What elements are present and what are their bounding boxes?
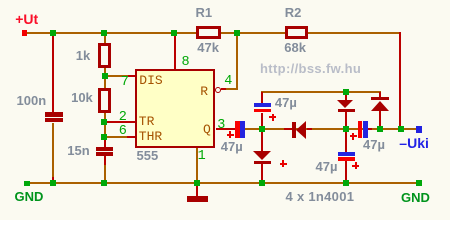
node -Uki blue pin square <box>416 126 422 132</box>
capacitor A label 47µ <box>221 140 243 153</box>
wire pin8 vertical red (rail to box top) <box>174 33 176 69</box>
junction upper wire at D1 <box>343 89 349 95</box>
diode D3 cathode bar <box>254 161 272 164</box>
capacitor B label 47µ <box>275 96 297 109</box>
node GND left green pin square <box>24 181 30 187</box>
node +Ut red pin square <box>22 30 28 36</box>
resistor 1k box <box>98 43 111 68</box>
wire red stub above bottom-left junction <box>52 177 54 183</box>
wire pin4 reset vertical (top rail down) <box>236 33 238 90</box>
wire cap B top red pin <box>261 92 263 103</box>
junction bottom rail pin1 <box>194 180 200 186</box>
diode D4 triangle <box>296 121 306 139</box>
wire top rail middle segment (R1 to R2) <box>221 32 285 34</box>
label R1 <box>196 6 213 19</box>
net label +Ut <box>15 12 38 26</box>
wire pin4 reset horizontal <box>225 88 238 90</box>
label 100n <box>17 94 47 107</box>
capacitor C red plate <box>338 157 356 161</box>
junction bottom rail x346 <box>343 180 349 186</box>
wire x104 10k to THR junction <box>104 113 106 137</box>
op-amp U1 555 IC body <box>135 69 216 148</box>
capacitor C (bottom, x346) blue plate <box>338 152 356 156</box>
junction mid wire at D2 <box>377 126 383 132</box>
junction top rail x174 (pin8) <box>171 30 177 36</box>
wire top rail right segment (R2 to corner) <box>308 32 402 34</box>
wire pin1 vertical (box bottom to GND rail) <box>196 148 198 183</box>
wire THR pin6 horizontal <box>104 136 135 138</box>
junction THR node <box>101 134 107 140</box>
diode D1 (down, x346) triangle <box>337 100 353 108</box>
wire x104 1k to 10k (through DIS junction) <box>104 68 106 88</box>
junction top rail x53 <box>50 30 56 36</box>
label 68k (R2) <box>284 41 306 54</box>
pin number 8 <box>182 56 190 70</box>
pin number 1 <box>198 150 206 164</box>
wire red stub right of cap D <box>368 128 372 130</box>
junction mid wire at cap B node <box>259 126 265 132</box>
wire diode D1 top red pin <box>345 93 347 101</box>
wire mid output run (cap A to -Uki pin) <box>245 128 417 130</box>
wire red stub left of series diode <box>284 128 293 130</box>
pin name DIS <box>139 74 162 87</box>
pin name TR <box>139 115 155 128</box>
label 10k <box>71 91 93 104</box>
label 555 <box>137 149 159 162</box>
pin number 7 <box>121 76 129 90</box>
label 15n <box>67 144 89 157</box>
wire left vertical red upper (x53, rail to 100n) <box>52 33 54 112</box>
wire GND symbol red stub below pin1 junction <box>196 186 198 196</box>
diode D3 plus <box>280 163 287 165</box>
label 1k <box>76 49 90 62</box>
junction bottom rail x53 <box>50 180 56 186</box>
capacitor D label 47µ <box>363 138 385 151</box>
capacitor C label 47µ <box>316 160 338 173</box>
capacitor A plus <box>227 134 234 136</box>
wire x104 rail to 1k <box>104 33 106 44</box>
capacitor B red plate <box>254 109 271 113</box>
junction bottom rail x104 <box>101 180 107 186</box>
wire cap B bottom red pin <box>261 113 263 127</box>
junction TR node <box>101 119 107 125</box>
diode D2 (up, x380) cathode bar <box>371 97 389 100</box>
wire top rail left segment (+Ut to R1) <box>26 32 196 34</box>
wire Q pin3 red (box to cap A) <box>216 128 235 130</box>
wire diode D3 bottom red pin <box>261 164 263 182</box>
wire DIS pin7 red stub at box <box>128 75 135 77</box>
wire red 15n bottom pin <box>104 156 106 165</box>
junction top rail x237 (reset) <box>234 30 240 36</box>
pin name Q <box>203 123 211 136</box>
label 4 x 1n4001 <box>286 190 355 203</box>
capacitor 15n plate 1 <box>96 147 114 151</box>
resistor 10k box <box>98 88 112 114</box>
capacitor D plus <box>350 135 357 137</box>
pin number 2 <box>119 111 127 125</box>
capacitor C plus <box>352 165 359 167</box>
capacitor D (output, y129) red plate <box>358 121 363 138</box>
pin number 6 <box>119 125 127 139</box>
wire diode D2 bottom red pin <box>379 110 381 128</box>
junction mid wire at right rail <box>398 126 404 132</box>
diode D4 (series, horizontal) cathode bar <box>292 122 296 138</box>
capacitor 100n plate 1 <box>45 112 63 116</box>
diode D3 (down, x262) triangle <box>253 151 271 160</box>
capacitor A (series at Q) red plate <box>235 121 240 138</box>
capacitor B (top, at cap-B node) blue plate <box>254 103 271 107</box>
pin name THR <box>139 130 162 143</box>
wire cap C top red pin <box>345 130 347 151</box>
junction bottom rail x262 <box>259 180 265 186</box>
label 47k (R1) <box>197 41 219 54</box>
node GND right green pin square <box>416 180 422 186</box>
resistor R1 box <box>196 26 222 39</box>
wire right vertical red (corner down to output wire) <box>399 32 401 131</box>
wire pin4 red stub at R circle <box>221 88 226 90</box>
wire diode D1 bottom red pin <box>345 112 347 129</box>
wire upper horizontal (cap B corner to diode D2) <box>261 91 381 93</box>
wire diode D3 top red pin <box>261 130 263 151</box>
diode D2 triangle <box>371 101 389 111</box>
pin name R <box>200 85 208 98</box>
wire left vertical lower (100n to GND rail) <box>52 123 54 178</box>
net label GND right <box>401 191 430 204</box>
capacitor 100n plate 2 <box>45 118 63 122</box>
label R2 <box>285 6 302 19</box>
ground symbol bar under pin1 <box>187 196 209 202</box>
pin number 4 <box>224 75 232 89</box>
diode D1 cathode bar <box>338 109 355 112</box>
wire DIS pin7 horizontal <box>105 75 135 77</box>
wire TR pin2 horizontal red <box>104 121 135 123</box>
wire red 15n top pin <box>104 137 106 147</box>
wire diode D2 top red pin <box>379 92 381 98</box>
resistor R2 box <box>285 26 308 39</box>
wire bottom GND rail <box>29 182 416 184</box>
pin number 3 <box>217 119 225 133</box>
label watermark http://bss.fw.hu <box>260 62 361 75</box>
wire THR pin6 red stub at box <box>127 136 135 138</box>
wire x104 15n to GND rail <box>104 165 106 184</box>
capacitor B plus <box>269 116 276 118</box>
pin R inverted circle <box>215 87 221 93</box>
wire cap C bottom red pin <box>345 161 347 182</box>
capacitor D blue plate <box>363 121 368 138</box>
net label -Uki <box>399 136 429 150</box>
net label GND left <box>15 190 44 203</box>
wire red stub right of series diode <box>307 128 313 130</box>
junction DIS node <box>102 73 108 79</box>
capacitor 15n plate 2 <box>96 152 114 156</box>
capacitor A blue plate <box>240 121 244 138</box>
junction mid wire at cap C / D1 <box>343 126 349 132</box>
junction top rail x104 <box>101 30 107 36</box>
